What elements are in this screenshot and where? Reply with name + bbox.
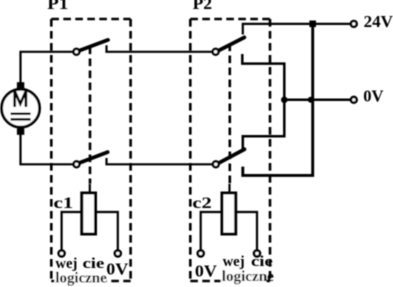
- svg-text:logiczne: logiczne: [222, 269, 274, 285]
- svg-text:0V: 0V: [363, 87, 384, 106]
- svg-text:c1: c1: [54, 195, 74, 212]
- svg-text:P1: P1: [47, 0, 68, 13]
- svg-text:c2: c2: [192, 195, 211, 212]
- svg-text:0V: 0V: [106, 260, 129, 279]
- svg-text:cie: cie: [251, 254, 273, 270]
- svg-text:24V: 24V: [364, 12, 393, 31]
- svg-text:logiczne: logiczne: [55, 271, 107, 287]
- svg-text:wej: wej: [223, 254, 245, 270]
- svg-text:P2: P2: [193, 0, 213, 13]
- svg-text:0V: 0V: [195, 262, 218, 281]
